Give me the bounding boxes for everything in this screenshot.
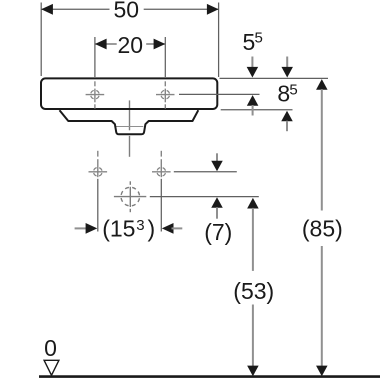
- svg-text:3: 3: [136, 217, 144, 234]
- svg-text:(15: (15: [102, 216, 135, 242]
- svg-text:8: 8: [277, 81, 290, 107]
- svg-text:): ): [148, 216, 156, 242]
- svg-text:0: 0: [44, 335, 57, 361]
- svg-text:50: 50: [114, 0, 140, 22]
- svg-text:(85): (85): [302, 215, 343, 241]
- svg-text:(53): (53): [233, 278, 274, 304]
- svg-text:5: 5: [255, 30, 263, 47]
- svg-text:5: 5: [243, 29, 256, 55]
- svg-text:5: 5: [289, 81, 297, 98]
- svg-text:20: 20: [118, 32, 144, 58]
- svg-text:(7): (7): [204, 219, 232, 245]
